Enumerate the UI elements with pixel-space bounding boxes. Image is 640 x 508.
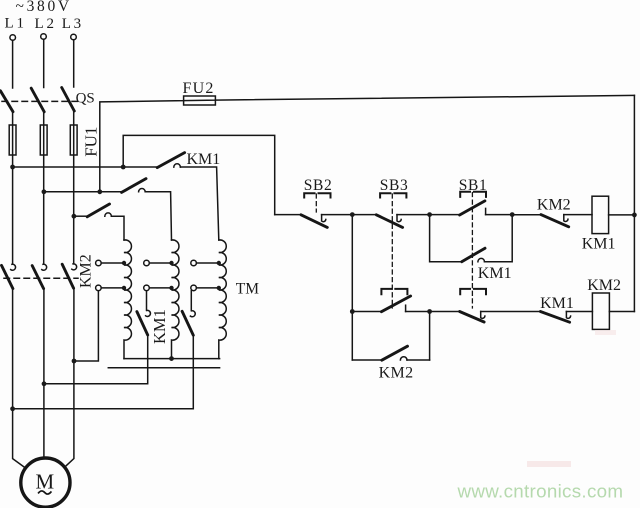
svg-text:KM2: KM2 — [537, 196, 571, 213]
svg-text:SB2: SB2 — [304, 177, 333, 194]
svg-text:KM1: KM1 — [478, 265, 512, 282]
svg-text:KM1: KM1 — [150, 309, 169, 344]
svg-text:M: M — [35, 469, 54, 493]
svg-text:L1: L1 — [5, 15, 27, 31]
svg-text:KM1: KM1 — [540, 295, 574, 312]
svg-text:KM2: KM2 — [587, 277, 621, 294]
svg-text:SB1: SB1 — [459, 177, 488, 194]
svg-text:QS: QS — [76, 90, 95, 106]
svg-text:www.cntronics.com: www.cntronics.com — [457, 481, 624, 502]
svg-text:KM2: KM2 — [379, 364, 414, 381]
svg-text:L2: L2 — [35, 16, 57, 32]
svg-text:FU2: FU2 — [183, 80, 215, 97]
svg-text:KM2: KM2 — [78, 254, 95, 288]
svg-text:FU1: FU1 — [81, 127, 100, 157]
svg-text:SB3: SB3 — [380, 177, 409, 194]
svg-text:L3: L3 — [62, 16, 84, 32]
svg-text:KM1: KM1 — [187, 151, 221, 168]
svg-text:~380V: ~380V — [16, 0, 72, 15]
svg-text:TM: TM — [236, 281, 259, 298]
svg-text:KM1: KM1 — [582, 236, 616, 253]
